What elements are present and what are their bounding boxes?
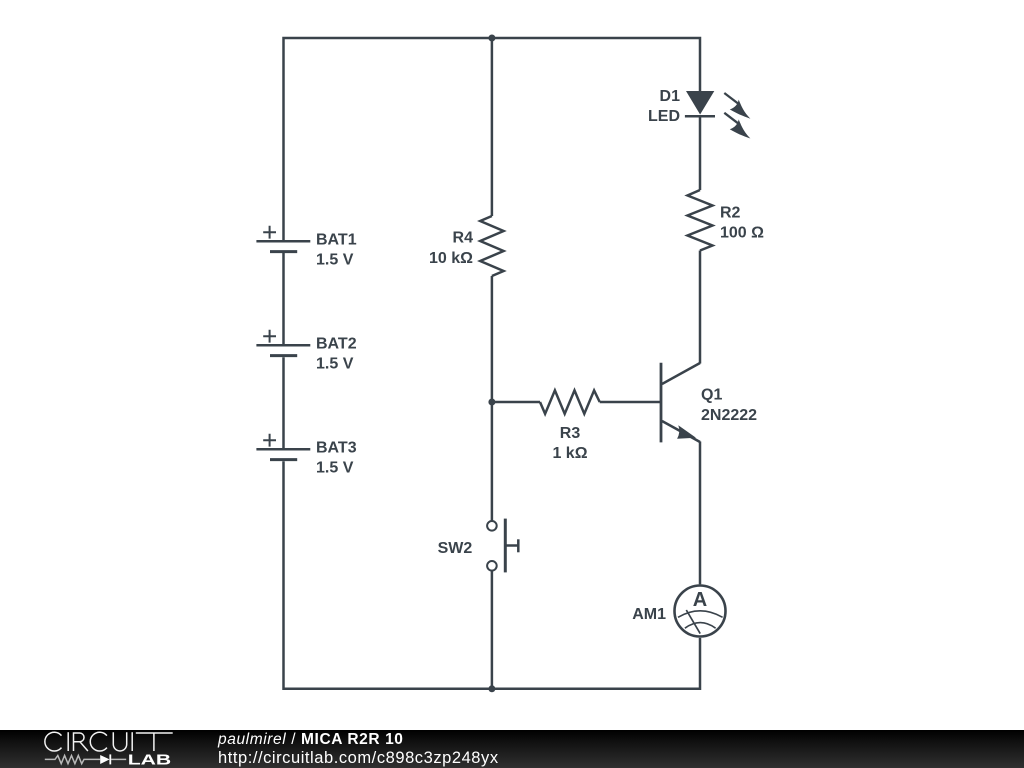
wire R4 to node B [491, 276, 494, 402]
resistor R4 [429, 216, 504, 276]
logo diode [100, 755, 109, 764]
wire bottom rail right [492, 638, 700, 689]
svg-text:Q1: Q1 [701, 387, 722, 404]
wire LED cathode to R2 [699, 117, 702, 190]
svg-text:R3: R3 [560, 425, 581, 442]
wire R2 to Q1 collector [699, 251, 702, 364]
wire bottom rail left [284, 461, 492, 689]
LED D1 [648, 88, 750, 139]
wire top rail left [284, 38, 492, 240]
logo letter C [90, 732, 107, 751]
wire R3 to Q1 base [600, 401, 660, 404]
svg-text:1.5 V: 1.5 V [316, 460, 354, 477]
transistor Q1 [661, 363, 757, 443]
switch SW2 [438, 519, 519, 573]
ammeter AM1 [632, 586, 725, 637]
wire Q1 emitter to AM1 [699, 442, 702, 585]
svg-text:LED: LED [648, 108, 680, 125]
resistor R2 [688, 190, 765, 251]
svg-text:BAT1: BAT1 [316, 232, 357, 249]
logo letter R [74, 732, 88, 751]
battery BAT2 [256, 330, 356, 373]
wire BAT1 to BAT2 [282, 253, 285, 345]
svg-text:1.5 V: 1.5 V [316, 252, 354, 269]
svg-text:2N2222: 2N2222 [701, 407, 757, 424]
svg-text:A: A [693, 589, 707, 611]
node B (R3 branch) [488, 399, 495, 406]
logo letter C [45, 732, 62, 751]
footer url [218, 749, 499, 768]
logo letter U [113, 732, 126, 751]
svg-text:1 kΩ: 1 kΩ [552, 445, 587, 462]
battery BAT1 [256, 226, 356, 269]
svg-text:BAT3: BAT3 [316, 440, 357, 457]
logo letter T [136, 733, 173, 751]
wire node B to R3 [492, 401, 540, 404]
wire top node to R4 [491, 38, 494, 216]
svg-text:10 kΩ: 10 kΩ [429, 250, 473, 267]
logo letter I [67, 732, 69, 751]
svg-text:100 Ω: 100 Ω [720, 224, 764, 241]
svg-text:SW2: SW2 [438, 540, 473, 557]
resistor R3 [540, 390, 600, 462]
svg-text:AM1: AM1 [632, 606, 666, 623]
footer title [218, 730, 404, 749]
svg-text:BAT2: BAT2 [316, 336, 357, 353]
logo letter I [131, 732, 133, 751]
wire BAT2 to BAT3 [282, 357, 285, 448]
svg-text:D1: D1 [660, 88, 681, 105]
wire top rail right [492, 38, 700, 92]
node bottom junction [488, 685, 495, 692]
wire SW2 to bottom node [491, 571, 494, 689]
svg-text:1.5 V: 1.5 V [316, 356, 354, 373]
svg-text:R2: R2 [720, 205, 741, 222]
wire node B to SW2 [491, 402, 494, 521]
battery BAT3 [256, 434, 356, 477]
svg-text:R4: R4 [453, 230, 474, 247]
svg-text:LAB: LAB [128, 752, 171, 768]
CircuitLab logo [0, 730, 190, 768]
node top junction [488, 35, 495, 42]
logo resistor zigzag [45, 756, 100, 764]
